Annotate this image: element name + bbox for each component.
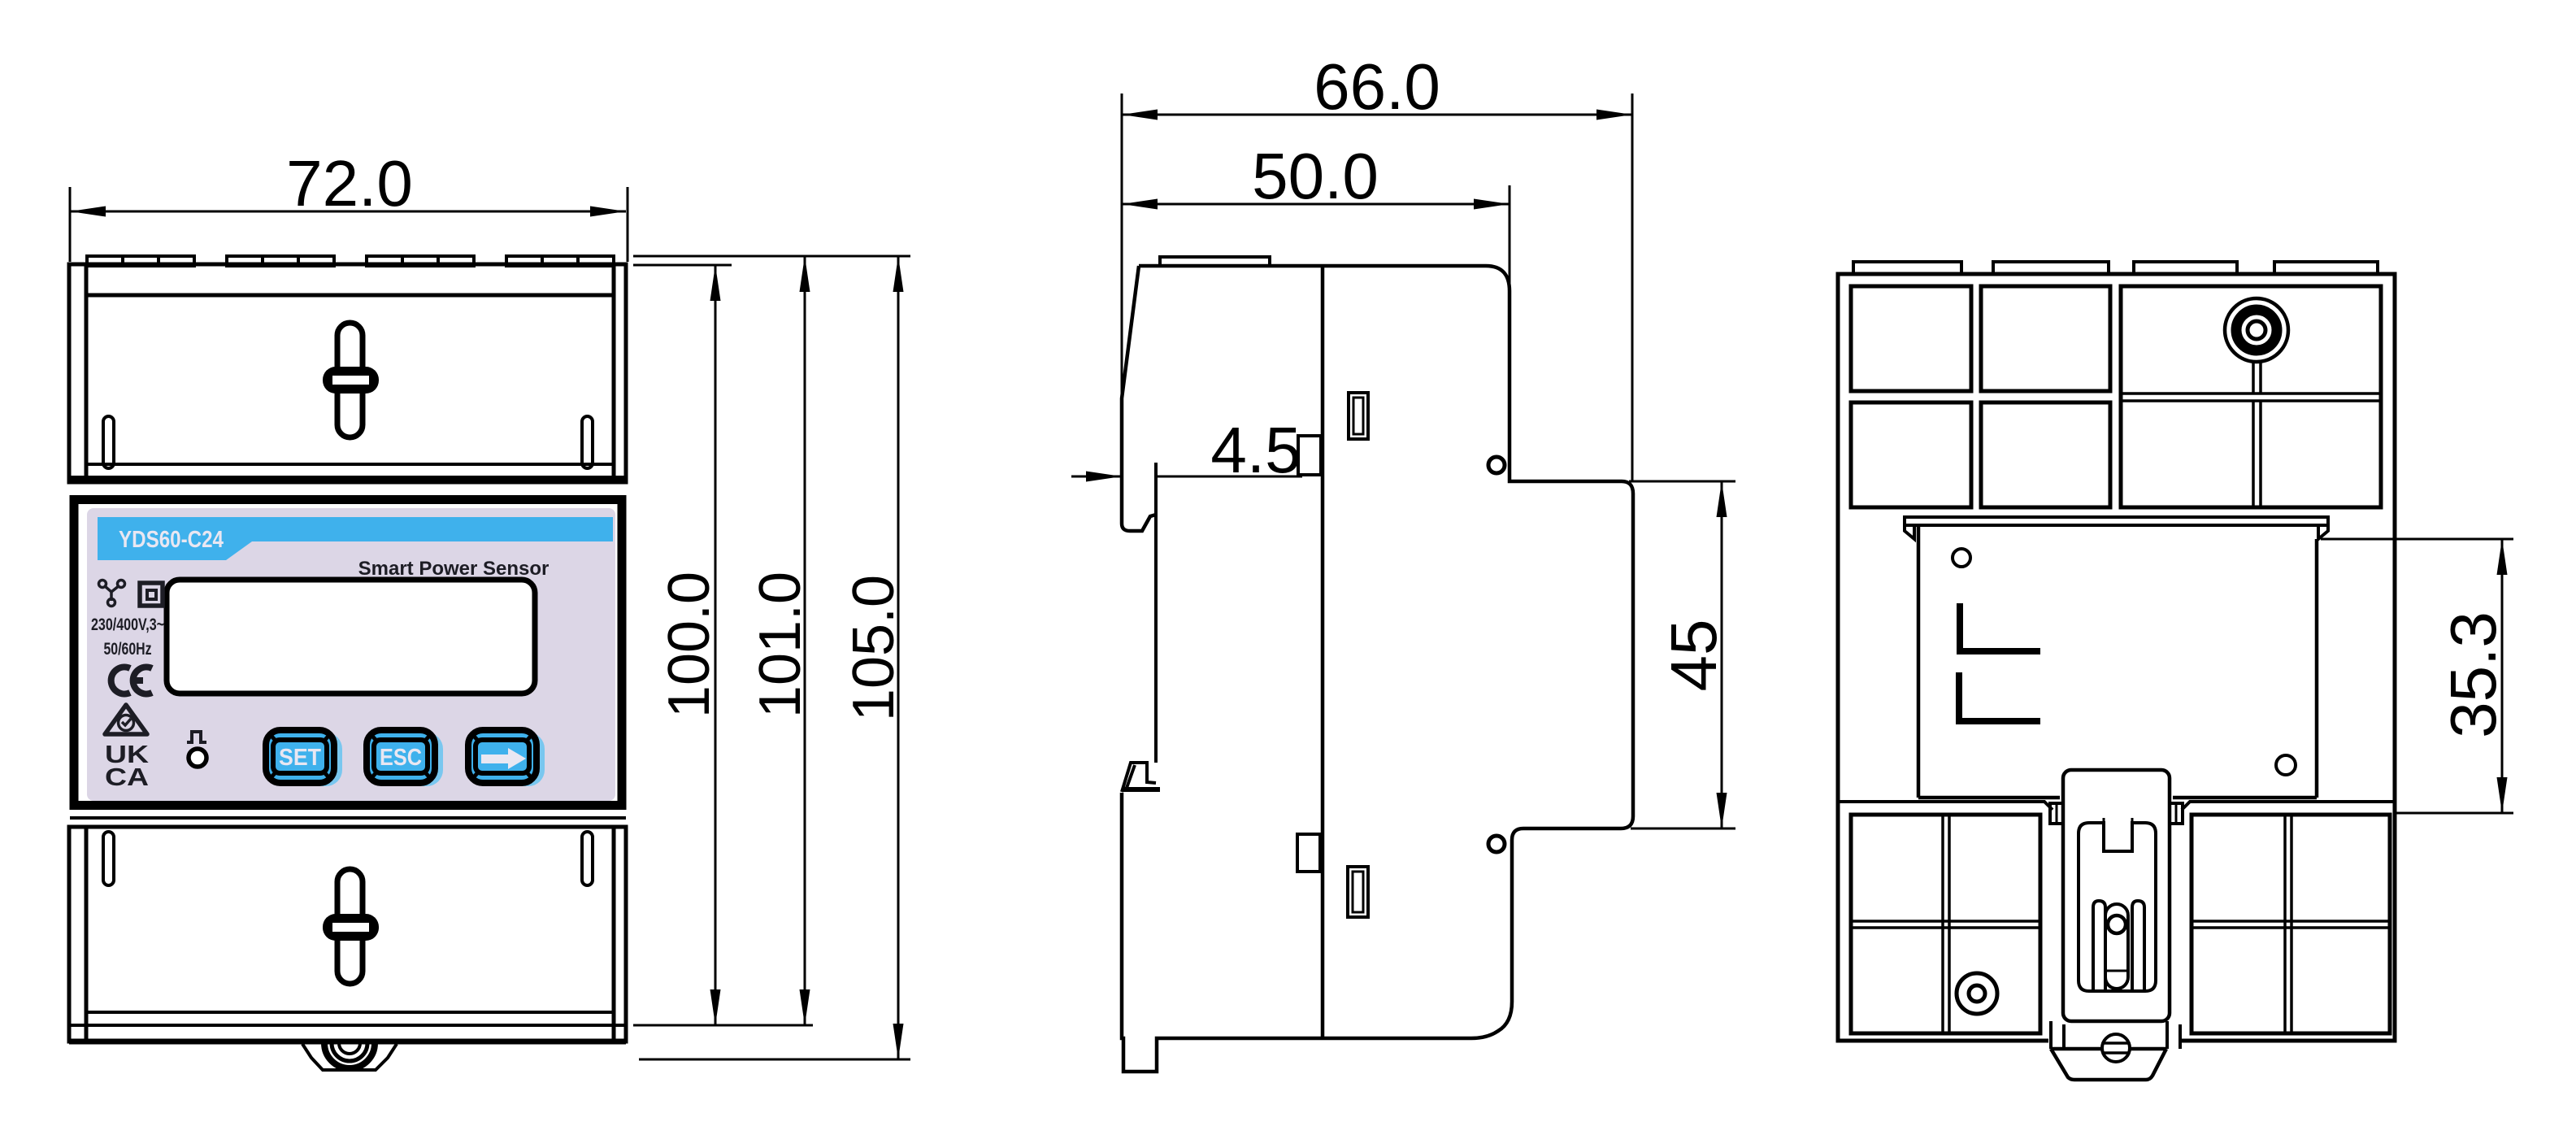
clip center column	[2105, 904, 2128, 989]
dimension 72.0	[70, 147, 628, 262]
svg-text:101.0: 101.0	[748, 572, 813, 718]
clip side tab left	[2050, 803, 2063, 824]
rear top teeth	[1853, 262, 2378, 274]
svg-text:35.3: 35.3	[2437, 611, 2509, 738]
pulse output icon	[187, 732, 206, 742]
RCM mark	[105, 705, 147, 734]
clip screw with slot	[2102, 1034, 2130, 1062]
dimension 105.0	[639, 256, 910, 1059]
svg-text:50.0: 50.0	[1252, 140, 1379, 212]
clip release tab	[2051, 1049, 2166, 1080]
upper clip block	[1298, 436, 1321, 475]
back plate	[1918, 525, 2317, 798]
CE mark	[111, 667, 152, 694]
front panel outer frame	[74, 500, 622, 806]
front face slant	[1122, 266, 1156, 531]
label sticker	[87, 508, 615, 801]
clip spring slot right	[2132, 901, 2144, 991]
side body outline	[1122, 266, 1633, 1072]
svg-text:72.0: 72.0	[286, 147, 413, 220]
button SET	[266, 730, 342, 786]
svg-text:ESC: ESC	[380, 745, 422, 771]
bottom section ledge	[1838, 802, 2395, 810]
top mounting tab	[1160, 257, 1270, 266]
lower flange line	[70, 816, 626, 820]
svg-text:230/400V,3~: 230/400V,3~	[91, 615, 164, 634]
enclosure face line	[1321, 266, 1325, 1038]
pins in bottom block	[103, 832, 114, 885]
svg-text:YDS60-C24: YDS60-C24	[119, 527, 224, 553]
svg-text:105.0: 105.0	[841, 575, 906, 721]
clip pivot hole	[2108, 915, 2126, 933]
svg-text:45: 45	[1657, 620, 1730, 692]
clip side tab right	[2170, 803, 2183, 824]
DIN seat surface line	[1154, 463, 1158, 763]
sealing screw rear top	[2225, 298, 2288, 362]
upper screw hole	[1488, 457, 1505, 473]
dimension 100.0	[633, 265, 813, 1025]
sealing screw bottom	[323, 869, 379, 984]
terminal grid upper left cells	[1851, 286, 2110, 507]
upper vent slot	[1349, 393, 1368, 439]
terminal grid upper right block	[2121, 286, 2381, 507]
sealing screw top	[323, 323, 379, 437]
button arrow	[468, 730, 545, 786]
lower screw hole	[1488, 836, 1505, 852]
lower vent slot	[1348, 867, 1368, 917]
sealing screw rear bottom	[1957, 973, 1997, 1014]
lower clip block	[1297, 834, 1320, 872]
bottom screw boss	[302, 1043, 397, 1070]
rail seat bar	[1905, 517, 2328, 539]
blue banner YDS60-C24	[98, 517, 613, 560]
svg-text:50/60Hz: 50/60Hz	[104, 640, 152, 659]
svg-text:100.0: 100.0	[657, 572, 722, 718]
bottom right terminal grid	[2192, 815, 2390, 1033]
plate hole lower right	[2276, 755, 2296, 775]
svg-text:SET: SET	[279, 745, 321, 771]
bottom left terminal grid	[1851, 815, 2040, 1033]
svg-text:66.0: 66.0	[1314, 50, 1440, 123]
plate hole upper left	[1953, 549, 1970, 567]
pins in top block	[103, 416, 114, 468]
clip bottom bracket left	[2051, 1021, 2064, 1049]
dimension 66.0	[1122, 50, 1632, 481]
DIN clip slider body	[2063, 770, 2170, 1021]
L-slot marks	[1960, 603, 2040, 651]
dimension 4.5	[1071, 414, 1302, 494]
svg-text:Smart Power Sensor: Smart Power Sensor	[358, 558, 550, 580]
clip white underlay	[2048, 1023, 2182, 1054]
rear outer body	[1838, 274, 2395, 1041]
clip inner outline with top notch	[2103, 818, 2105, 823]
bottom block	[69, 827, 626, 1041]
svg-text:CA: CA	[105, 763, 149, 791]
dimension 50.0	[1122, 140, 1510, 285]
button ESC	[367, 730, 443, 786]
top terminal teeth	[87, 256, 614, 266]
dimension 35.3	[2321, 539, 2513, 813]
clip bottom bracket right	[2167, 1021, 2180, 1049]
dimension 45	[1629, 481, 1735, 828]
LCD display	[170, 583, 535, 694]
terminal cover top block	[69, 264, 626, 482]
DIN rail hook	[1122, 763, 1160, 792]
dimension 101.0	[633, 256, 910, 1025]
clip spring slot left	[2093, 901, 2105, 991]
double insulation icon	[140, 583, 163, 606]
3-phase icon	[99, 581, 125, 607]
